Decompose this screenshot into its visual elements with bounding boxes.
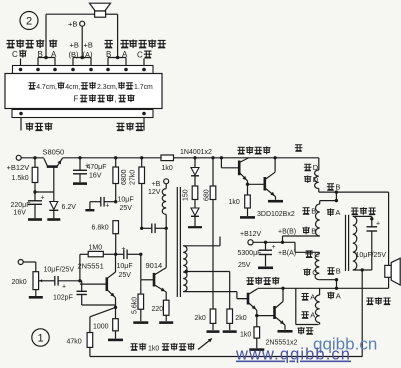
- svg-text:1k0: 1k0: [229, 199, 240, 206]
- svg-text:B: B: [311, 226, 316, 235]
- svg-text:A: A: [310, 311, 315, 320]
- svg-text:10μF/25V: 10μF/25V: [44, 267, 75, 274]
- svg-text:25V: 25V: [119, 272, 132, 279]
- svg-text:4.7cm,: 4.7cm,: [36, 84, 57, 91]
- svg-text:+: +: [62, 284, 66, 291]
- svg-text:5300μF: 5300μF: [238, 250, 262, 257]
- svg-text:B: B: [311, 207, 316, 216]
- svg-text:D: D: [313, 163, 319, 172]
- svg-text:27k0: 27k0: [130, 170, 137, 185]
- svg-text:S8050: S8050: [43, 148, 65, 157]
- svg-text:A: A: [122, 50, 128, 59]
- svg-text:6.8k0: 6.8k0: [92, 225, 109, 232]
- svg-text:+: +: [376, 221, 380, 228]
- svg-text:1M0: 1M0: [89, 244, 103, 251]
- svg-text:470μF: 470μF: [87, 164, 107, 171]
- svg-text:680: 680: [204, 189, 211, 201]
- svg-text:A: A: [335, 208, 340, 217]
- svg-text:A: A: [51, 50, 57, 59]
- svg-text:1k0: 1k0: [162, 165, 173, 172]
- svg-text:+: +: [105, 203, 109, 210]
- svg-text:A: A: [310, 293, 315, 302]
- svg-text:102pF: 102pF: [53, 294, 73, 301]
- svg-text:4cm,: 4cm,: [65, 84, 80, 91]
- svg-text:C: C: [314, 250, 320, 259]
- svg-text:2k0: 2k0: [235, 315, 246, 322]
- svg-text:+B: +B: [70, 40, 79, 49]
- svg-text:10μF: 10μF: [117, 263, 133, 270]
- svg-text:+B: +B: [84, 40, 93, 49]
- svg-text:16V: 16V: [89, 173, 102, 180]
- svg-text:(B): (B): [69, 50, 80, 59]
- svg-text:C: C: [12, 50, 18, 59]
- svg-text:20k0: 20k0: [12, 279, 27, 286]
- svg-text:B: B: [106, 50, 111, 59]
- svg-text:(A): (A): [83, 50, 94, 59]
- svg-text:10μF/25V: 10μF/25V: [356, 252, 387, 259]
- svg-text:A: A: [336, 292, 341, 301]
- svg-text:+B: +B: [152, 181, 161, 188]
- svg-text:1.7cm: 1.7cm: [134, 84, 153, 91]
- svg-text:www.qqibb.cn: www.qqibb.cn: [235, 346, 351, 364]
- svg-text:+B12V: +B12V: [240, 231, 262, 238]
- svg-text:+B: +B: [68, 20, 77, 29]
- svg-text:B: B: [38, 50, 43, 59]
- svg-text:+B(A): +B(A): [278, 250, 296, 257]
- svg-text:+: +: [41, 195, 45, 202]
- svg-text:+: +: [122, 246, 126, 253]
- svg-text:16V: 16V: [14, 210, 27, 217]
- svg-text:B: B: [335, 183, 340, 192]
- svg-text:F: F: [74, 95, 79, 104]
- svg-text:1N4001x2: 1N4001x2: [180, 149, 212, 156]
- svg-text:B: B: [336, 267, 341, 276]
- svg-text:25V: 25V: [238, 262, 251, 269]
- svg-text:9014: 9014: [146, 261, 163, 270]
- svg-text:C: C: [312, 268, 318, 277]
- svg-text:1: 1: [37, 333, 43, 345]
- svg-text:2N5551: 2N5551: [78, 262, 104, 271]
- svg-text:6.2V: 6.2V: [62, 204, 77, 211]
- svg-text:D: D: [313, 175, 319, 184]
- svg-text:220: 220: [152, 306, 164, 313]
- svg-text:12V: 12V: [148, 189, 161, 196]
- svg-text:,: ,: [115, 95, 117, 104]
- svg-text:220μF: 220μF: [11, 202, 31, 209]
- svg-text:47k0: 47k0: [67, 339, 82, 346]
- svg-text:+B12V: +B12V: [7, 163, 30, 172]
- svg-text:25V: 25V: [120, 205, 133, 212]
- svg-text:5.6k0: 5.6k0: [131, 297, 138, 314]
- svg-text:1k0: 1k0: [240, 331, 251, 338]
- svg-text:+: +: [272, 244, 276, 251]
- svg-text:1000: 1000: [93, 324, 109, 331]
- svg-text:1.5k0: 1.5k0: [12, 175, 29, 182]
- svg-text:2: 2: [26, 16, 32, 28]
- svg-text:+B(B): +B(B): [278, 229, 296, 236]
- svg-text:10μF: 10μF: [118, 197, 134, 204]
- svg-text:C: C: [137, 51, 143, 60]
- svg-text:6800: 6800: [121, 169, 128, 185]
- svg-text:150: 150: [183, 189, 190, 201]
- svg-text:2k0: 2k0: [195, 315, 206, 322]
- svg-text:2.3cm,: 2.3cm,: [97, 84, 118, 91]
- svg-text:3DD102Bx2: 3DD102Bx2: [257, 211, 295, 218]
- svg-text:1k0: 1k0: [148, 346, 159, 353]
